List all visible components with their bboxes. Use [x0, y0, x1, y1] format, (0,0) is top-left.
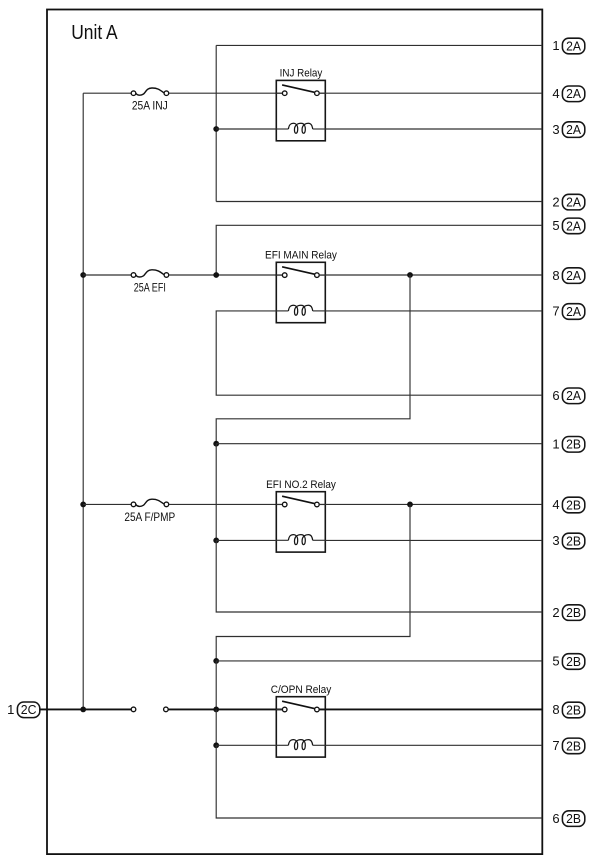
svg-text:2A: 2A	[566, 268, 581, 283]
pin 8 connector 2A label	[552, 268, 584, 284]
svg-text:2B: 2B	[566, 702, 581, 717]
svg-text:1: 1	[552, 437, 559, 452]
relay EFI NO.2 box	[276, 492, 325, 552]
pin 5 connector 2A label	[552, 218, 584, 234]
svg-text:EFI MAIN Relay: EFI MAIN Relay	[265, 250, 337, 262]
relay EFI NO.2 switch blade	[282, 496, 314, 503]
svg-text:2B: 2B	[566, 654, 581, 669]
svg-text:7: 7	[552, 304, 559, 319]
relay C/OPN label	[271, 684, 332, 696]
pin 1 connector 2B label	[552, 437, 584, 453]
svg-text:25A INJ: 25A INJ	[132, 99, 168, 113]
svg-text:8: 8	[552, 268, 559, 283]
svg-text:2A: 2A	[566, 388, 581, 403]
svg-text:2A: 2A	[566, 38, 581, 53]
relay INJ switch blade	[282, 85, 314, 92]
svg-text:6: 6	[552, 388, 559, 403]
svg-text:1: 1	[552, 38, 559, 53]
wire fuse EFI to relay switch	[169, 274, 283, 276]
junction pin 5 2B tap	[213, 658, 219, 664]
svg-text:5: 5	[552, 654, 559, 669]
relay C/OPN box	[276, 697, 325, 757]
wire pin 1 2A	[216, 44, 542, 46]
fuse 25A F/PMP symbol	[131, 499, 169, 507]
junction bus to C/OPN main wire	[213, 707, 219, 713]
wire fuse F/PMP to relay switch	[169, 503, 283, 505]
svg-text:8: 8	[552, 702, 559, 717]
svg-text:C/OPN Relay: C/OPN Relay	[271, 684, 332, 696]
junction EFI NO.2 out cascade	[407, 502, 413, 508]
svg-text:4: 4	[552, 86, 559, 101]
pin 6 connector 2B label	[552, 811, 584, 827]
wire bus down to C/OPN main	[215, 661, 217, 710]
relay EFI MAIN box	[276, 262, 325, 322]
svg-text:7: 7	[552, 738, 559, 753]
relay INJ switch contact stubs	[276, 92, 325, 94]
svg-text:EFI NO.2 Relay: EFI NO.2 Relay	[266, 479, 336, 491]
wire pin 5 2A branch	[216, 225, 542, 275]
svg-text:6: 6	[552, 811, 559, 826]
wire relay C/OPN out to pin 8 2B	[319, 708, 542, 710]
wire fuse INJ to relay switch	[169, 92, 283, 94]
pin 8 connector 2B label	[552, 702, 584, 718]
junction C/OPN coil tap	[213, 742, 219, 748]
relay EFI MAIN switch blade	[282, 267, 314, 274]
svg-text:Unit A: Unit A	[71, 21, 118, 44]
wire cascade EFI NO.2 to C/OPN section	[216, 504, 410, 661]
svg-text:INJ Relay: INJ Relay	[280, 68, 323, 80]
wire trunk vertical	[82, 93, 84, 709]
relay C/OPN coil	[276, 740, 325, 750]
junction pin 1 2B tap	[213, 441, 219, 447]
fuse 25A F/PMP value label	[124, 510, 175, 524]
wire 2C feed to relay C/OPN switch	[168, 708, 282, 710]
svg-text:2B: 2B	[566, 533, 581, 548]
fuse 25A INJ value label	[132, 99, 168, 113]
wire bus down to EFI NO.2 coil	[215, 444, 217, 541]
wire fuse INJ feed	[83, 92, 131, 94]
svg-text:2A: 2A	[566, 122, 581, 137]
relay C/OPN switch contacts	[282, 707, 319, 712]
svg-text:1: 1	[7, 702, 14, 717]
relay EFI NO.2 switch contacts	[282, 502, 319, 507]
svg-text:2A: 2A	[566, 195, 581, 210]
relay EFI MAIN coil	[276, 305, 325, 315]
relay EFI MAIN switch contacts	[282, 273, 319, 278]
svg-text:2: 2	[552, 605, 559, 620]
pin 3 connector 2A label	[552, 122, 584, 138]
relay INJ box	[276, 80, 325, 140]
pin 2 connector 2A label	[552, 194, 584, 210]
junction trunk to fuse EFI	[80, 272, 86, 278]
pin 2 connector 2B label	[552, 605, 584, 621]
svg-text:2C: 2C	[21, 702, 37, 717]
wire pin 2 2A	[216, 201, 542, 203]
pin 7 connector 2A label	[552, 304, 584, 320]
svg-text:2A: 2A	[566, 218, 581, 233]
wire EFI MAIN coil return to pin 6 2A	[216, 311, 542, 395]
wire C/OPN coil to relay	[216, 744, 276, 746]
fuse 25A EFI symbol	[131, 270, 169, 278]
svg-text:2: 2	[552, 194, 559, 209]
wire fuse EFI feed	[83, 274, 131, 276]
relay C/OPN switch blade	[282, 701, 314, 708]
svg-text:2A: 2A	[566, 304, 581, 319]
pin 4 connector 2A label	[552, 86, 584, 102]
svg-text:2B: 2B	[566, 605, 581, 620]
title Unit A	[71, 21, 118, 44]
wire bus down to pin 2 2B corner	[216, 540, 542, 612]
wire bus down to pin 6 2B corner	[216, 745, 542, 818]
junction EFI NO.2 coil tap	[213, 538, 219, 544]
svg-text:25A F/PMP: 25A F/PMP	[124, 510, 175, 524]
junction bus to INJ coil	[213, 126, 219, 132]
pin 4 connector 2B label	[552, 497, 584, 513]
wire relay INJ switch out to pin 4 2A	[319, 92, 542, 94]
fuse 25A EFI value label	[134, 281, 166, 295]
relay EFI MAIN label	[265, 250, 337, 262]
pin 6 connector 2A label	[552, 388, 584, 404]
junction EFI MAIN out cascade	[407, 272, 413, 278]
relay C/OPN switch contact stubs	[276, 709, 325, 711]
wire pin 1 2B	[216, 443, 542, 445]
svg-text:2B: 2B	[566, 811, 581, 826]
relay INJ label	[280, 68, 323, 80]
wire cascade EFI MAIN to next section	[216, 275, 410, 444]
wire C/OPN coil out to pin 7 2B	[325, 744, 542, 746]
wire bus down to C/OPN coil	[215, 709, 217, 745]
svg-text:2B: 2B	[566, 497, 581, 512]
wire bus to INJ coil	[216, 128, 276, 130]
pin 1 connector 2A label	[552, 38, 584, 54]
pin 7 connector 2B label	[552, 738, 584, 754]
svg-text:5: 5	[552, 218, 559, 233]
relay INJ switch contacts	[282, 91, 319, 96]
junction bus to EFI MAIN main wire	[213, 272, 219, 278]
relay EFI NO.2 coil	[276, 535, 325, 545]
wire EFI NO.2 coil to relay	[216, 539, 276, 541]
svg-text:3: 3	[552, 122, 559, 137]
svg-text:4: 4	[552, 497, 559, 512]
fuse 25A INJ symbol	[131, 88, 169, 96]
svg-text:25A EFI: 25A EFI	[134, 281, 166, 295]
wire EFI MAIN coil out to pin 7 2A	[325, 310, 542, 312]
relay INJ coil	[276, 123, 325, 133]
wire EFI NO.2 coil out to pin 3 2B	[325, 539, 542, 541]
wire relay EFI NO.2 out to pin 4 2B	[319, 503, 542, 505]
relay EFI NO.2 label	[266, 479, 336, 491]
svg-text:2A: 2A	[566, 86, 581, 101]
relay EFI NO.2 switch contact stubs	[276, 504, 325, 506]
wire 2C feed to connector break	[40, 708, 131, 710]
relay EFI MAIN switch contact stubs	[276, 274, 325, 276]
node 1 2C label	[7, 702, 40, 718]
svg-text:2B: 2B	[566, 437, 581, 452]
wire relay EFI MAIN out to pin 8 2A	[319, 274, 542, 276]
svg-text:2B: 2B	[566, 738, 581, 753]
wire INJ coil out to pin 3 2A	[325, 128, 542, 130]
wire pin 5 2B	[216, 660, 542, 662]
junction trunk top of 2C feed	[80, 707, 86, 713]
pin 3 connector 2B label	[552, 533, 584, 549]
junction trunk to fuse F/PMP	[80, 502, 86, 508]
pin 5 connector 2B label	[552, 654, 584, 670]
svg-text:3: 3	[552, 533, 559, 548]
wire bus vertical pins 1-2 2A	[215, 45, 217, 201]
connector break circles	[131, 707, 168, 712]
wire fuse F/PMP feed	[83, 503, 131, 505]
